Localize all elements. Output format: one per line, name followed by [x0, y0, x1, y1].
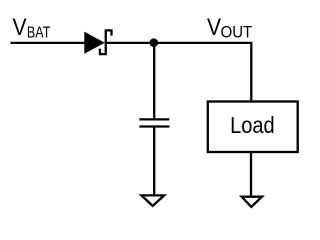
svg-text:OUT: OUT: [221, 24, 253, 42]
svg-text:V: V: [13, 14, 27, 41]
svg-text:V: V: [207, 14, 221, 41]
svg-text:BAT: BAT: [27, 24, 51, 42]
svg-text:Load: Load: [230, 113, 275, 138]
